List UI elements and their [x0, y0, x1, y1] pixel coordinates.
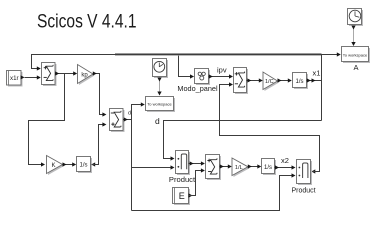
wire sum4 out to 1/L [220, 164, 232, 168]
svg-text:ipv: ipv [217, 66, 227, 75]
svg-text:Modo_panel: Modo_panel [177, 84, 218, 93]
wire sum2 out to junction [123, 117, 132, 121]
svg-text:K: K [51, 163, 55, 169]
wire x1r to sum1 [21, 75, 41, 79]
block To workspace A [342, 47, 371, 64]
wire x1 riser [321, 54, 323, 121]
wire d riser to To workspace [132, 102, 145, 119]
svg-text:x2: x2 [281, 156, 289, 165]
gain K [47, 156, 65, 176]
svg-text:kp: kp [81, 72, 88, 78]
wire d to Product1 lower input [132, 165, 175, 169]
wire feedback x1 top line [32, 52, 341, 70]
wire d down trunk [131, 120, 133, 211]
wire Product2 out to sum3 lower input [220, 82, 320, 173]
gain kp [78, 65, 95, 86]
svg-text:To workspace: To workspace [147, 102, 172, 107]
wire sum1 out to kp [55, 71, 77, 75]
wire 1/C out to integrator [278, 78, 292, 82]
svg-text:d: d [155, 116, 160, 126]
input port E [173, 188, 191, 206]
wire branch to Modo_panel [179, 56, 195, 79]
svg-text:1/C: 1/C [265, 79, 274, 85]
wire d bottom run to Product2 lower input [132, 173, 296, 210]
svg-text:1/L: 1/L [235, 165, 243, 171]
clock C2 [348, 9, 364, 27]
summation S1 [42, 63, 57, 87]
multiplier Product2 [297, 160, 313, 186]
svg-text:A: A [354, 63, 359, 72]
svg-text:1/s: 1/s [264, 165, 272, 171]
wire E to sum4 lower input [189, 168, 205, 197]
wire Product1 out to sum4 [189, 161, 205, 165]
wire clock1 event link [157, 77, 161, 96]
wire integrator out up to sum2 [91, 122, 106, 166]
wire sum3 out to 1/C [247, 78, 263, 82]
summation S2 [110, 109, 125, 133]
svg-text:Scicos V 4.4.1: Scicos V 4.4.1 [37, 12, 137, 33]
summation S3 [234, 68, 249, 95]
wire Modo_panel out to sum3 [209, 74, 234, 78]
clock C1 [153, 59, 169, 79]
svg-text:x1: x1 [313, 69, 321, 78]
gain 1/C [263, 72, 279, 91]
svg-text:1/s: 1/s [295, 79, 303, 85]
summation S4 [206, 155, 222, 181]
wire loop junction down to gain K [29, 74, 65, 167]
svg-text:Product: Product [291, 188, 315, 195]
block To workspace d [146, 97, 176, 113]
integrator 1/s lower-right [262, 159, 277, 176]
svg-text:x1r: x1r [10, 75, 19, 82]
svg-text:1/s: 1/s [79, 163, 87, 169]
wire kp out down to sum2 [93, 71, 107, 116]
svg-text:d: d [128, 111, 131, 117]
wire x2 to Product2 upper input [275, 165, 296, 169]
integrator 1/s upper [293, 73, 309, 90]
wire 1/L out to integrator [248, 164, 261, 168]
wire K to integrator [63, 162, 77, 166]
wire x1 down and left to Product1 upper input [164, 121, 322, 161]
svg-text:E: E [179, 191, 185, 201]
multiplier Product1 [176, 151, 191, 176]
svg-text:To workspace: To workspace [343, 52, 368, 57]
gain 1/L [232, 158, 250, 177]
wire clock2 event link [351, 26, 355, 47]
block Modo_panel [195, 69, 211, 86]
input port x1r [7, 71, 23, 87]
integrator 1/s lower-left [77, 157, 93, 174]
wire 1/s out to x1 node [307, 78, 322, 82]
svg-text:Product: Product [169, 175, 196, 184]
